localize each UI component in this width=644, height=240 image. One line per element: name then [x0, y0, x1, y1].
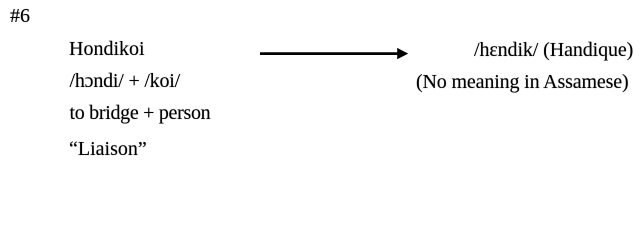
label #6 — [10, 5, 30, 28]
note (No meaning in Assamese) — [416, 71, 628, 94]
result /hɛndik/ (Handique) — [474, 39, 633, 62]
phonemes /hɔndi/ + /koi/ — [70, 70, 181, 93]
arrow — [258, 46, 410, 62]
word Hondikoi — [69, 38, 145, 61]
gloss to bridge + person — [70, 102, 211, 125]
meaning "Liaison" — [69, 138, 147, 161]
